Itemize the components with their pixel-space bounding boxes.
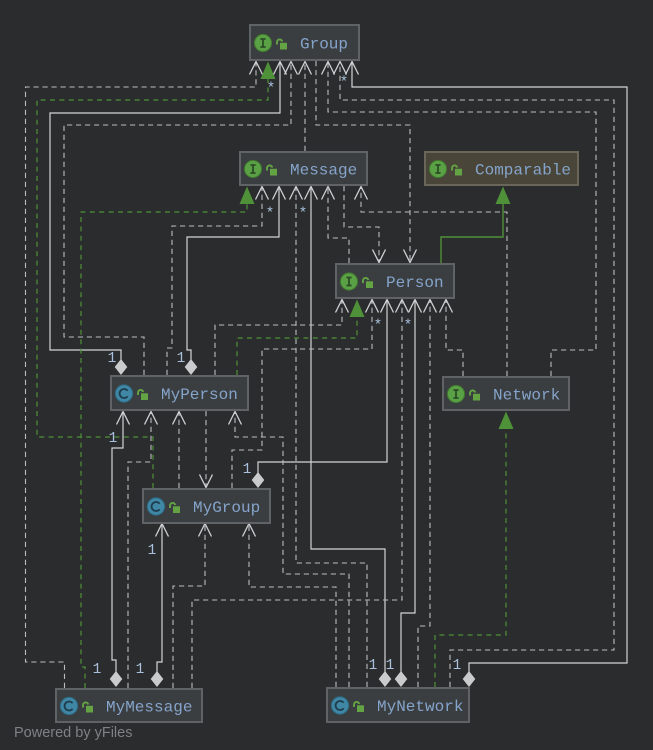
wire MyMessage to MyGroup bbox=[173, 524, 212, 689]
node MyMessage bbox=[56, 689, 202, 722]
watermark Powered by yFiles bbox=[14, 725, 132, 741]
svg-text:1: 1 bbox=[177, 351, 186, 367]
svg-text:Powered by yFiles: Powered by yFiles bbox=[14, 725, 132, 741]
svg-text:1: 1 bbox=[148, 543, 157, 559]
svg-text:*: * bbox=[404, 319, 413, 335]
wire MyNetwork to Group bbox=[334, 62, 615, 688]
svg-text:MyNetwork: MyNetwork bbox=[377, 698, 463, 716]
node Person bbox=[336, 264, 454, 298]
wire MyGroup to MyPerson bbox=[173, 412, 186, 489]
wire MyNetwork to Person bbox=[418, 300, 437, 688]
svg-text:1: 1 bbox=[453, 658, 462, 674]
wire MyPerson to Person realization bbox=[237, 300, 365, 376]
svg-text:*: * bbox=[267, 82, 276, 98]
svg-text:MyGroup: MyGroup bbox=[193, 499, 260, 517]
wire Person to Comparable generalization bbox=[441, 187, 511, 264]
wire Network to Group bbox=[322, 62, 597, 377]
wire MyGroup aggregates Person bbox=[243, 300, 394, 489]
svg-text:Group: Group bbox=[300, 36, 348, 54]
node Group bbox=[250, 25, 359, 60]
wire MyNetwork aggregates Person bbox=[386, 300, 422, 688]
svg-text:*: * bbox=[340, 76, 349, 92]
wire MyNetwork to MyGroup bbox=[243, 524, 337, 688]
svg-text:Network: Network bbox=[493, 387, 560, 405]
svg-text:1: 1 bbox=[109, 431, 118, 447]
wire MyPerson to Message bbox=[167, 187, 274, 376]
wire MyMessage to Group bbox=[26, 62, 263, 689]
wire MyPerson to Group bbox=[64, 62, 298, 376]
svg-text:*: * bbox=[266, 207, 275, 223]
svg-text:1: 1 bbox=[108, 351, 117, 367]
wire Network to Message bbox=[355, 187, 508, 377]
wire MyNetwork to Message bbox=[290, 187, 368, 688]
svg-text:*: * bbox=[374, 319, 383, 335]
node MyPerson bbox=[111, 376, 248, 410]
wire MyNetwork to Network realization bbox=[435, 412, 514, 688]
svg-text:Comparable: Comparable bbox=[475, 162, 571, 180]
node Network bbox=[443, 377, 569, 410]
svg-text:MyPerson: MyPerson bbox=[161, 386, 238, 404]
svg-text:*: * bbox=[299, 207, 308, 223]
wire MyMessage aggregates MyGroup bbox=[136, 524, 169, 688]
node Comparable bbox=[425, 152, 578, 185]
wire MyNetwork aggregates Group bbox=[346, 62, 628, 688]
wire Message to Person bbox=[344, 186, 386, 263]
wire MyGroup to Group realization bbox=[37, 62, 276, 489]
svg-text:1: 1 bbox=[136, 662, 145, 678]
wire MyGroup to Person bbox=[232, 300, 382, 489]
node Message bbox=[240, 152, 367, 185]
node MyGroup bbox=[143, 489, 270, 523]
wire Person to Message bbox=[322, 187, 350, 264]
svg-text:1: 1 bbox=[243, 462, 252, 478]
node MyNetwork bbox=[327, 688, 469, 722]
wire MyPerson aggregates Message bbox=[177, 187, 286, 376]
svg-text:1: 1 bbox=[93, 662, 102, 678]
wire Message to Group bbox=[299, 62, 312, 152]
wire MyMessage aggregates MyPerson bbox=[93, 412, 130, 688]
wire MyMessage to Person bbox=[192, 300, 412, 689]
wire MyMessage to Message realization bbox=[81, 187, 255, 689]
wire Network to Person bbox=[440, 300, 464, 377]
svg-text:Message: Message bbox=[290, 162, 357, 180]
wire MyPerson aggregates Group bbox=[50, 62, 287, 376]
wire MyNetwork to MyPerson bbox=[229, 412, 350, 688]
wire Group to Person bbox=[316, 61, 417, 263]
wire MyPerson to MyGroup bbox=[200, 411, 213, 488]
svg-text:MyMessage: MyMessage bbox=[106, 699, 192, 717]
wire MyNetwork aggregates Message bbox=[305, 187, 392, 688]
svg-text:Person: Person bbox=[386, 274, 444, 292]
svg-text:1: 1 bbox=[386, 658, 395, 674]
wire MyMessage to MyPerson bbox=[128, 412, 158, 689]
wire MyPerson to Person bbox=[215, 300, 349, 376]
svg-text:1: 1 bbox=[369, 658, 378, 674]
